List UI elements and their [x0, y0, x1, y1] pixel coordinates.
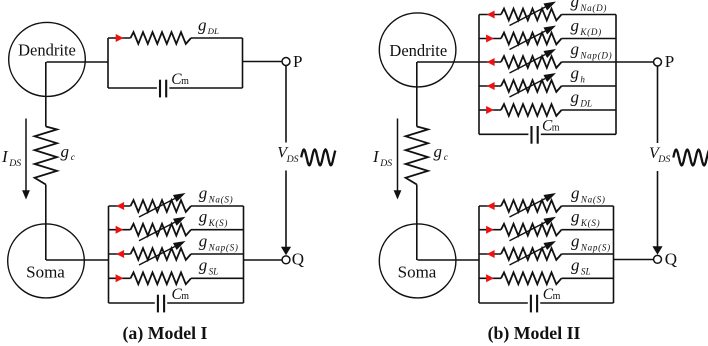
label g_K(S) (Model II soma): [571, 207, 600, 228]
wire: soma to channel box (Model II): [418, 259, 480, 261]
wire row lead-in g_Na(S) (Model I): [109, 205, 131, 207]
wire: bottom edge left of C_m (Model I dendrite): [108, 87, 157, 89]
node Q (Model I): [282, 250, 304, 269]
bus right (Model II dendrite box): [615, 15, 617, 135]
label g_K(D) (Model II): [571, 16, 602, 37]
wire: bottom edge left of C_m (Model I soma): [109, 302, 155, 304]
wire row lead-in g_SL (Model I): [109, 277, 131, 279]
svg-text:Nap(S): Nap(S): [208, 242, 239, 252]
current direction arrow on g_DL (red, Model II): [486, 106, 494, 114]
variable arrow on g_Na(D) (Model II): [510, 2, 557, 26]
label g_c (Model II): [434, 142, 449, 163]
bus left (Model II dendrite box): [478, 15, 480, 135]
wire: P down to V_DS (Model II): [657, 66, 659, 143]
wire: dendrite to RC box (Model I): [47, 61, 109, 63]
svg-text:K(S): K(S): [208, 218, 228, 228]
capacitor C_m (Model I dendrite): [160, 80, 166, 98]
svg-text:DS: DS: [8, 158, 21, 169]
resistor g_Na(S) (Model I): [131, 200, 192, 212]
resistor g_h (Model II): [501, 80, 562, 92]
resistor g_c (Model I): [35, 127, 57, 185]
svg-text:g: g: [199, 207, 208, 226]
svg-text:g: g: [571, 231, 580, 250]
label g_DL (Model I): [198, 16, 219, 37]
bus right (Model I soma box): [243, 206, 245, 303]
variable arrow on g_Nap(S) (Model I): [139, 241, 186, 265]
svg-text:Soma: Soma: [398, 263, 437, 282]
wire: bottom edge right of C_m (Model I soma): [167, 302, 243, 304]
svg-text:DL: DL: [207, 26, 219, 36]
svg-text:m: m: [552, 123, 560, 134]
current direction arrow on g_K(S) (red, Model I): [116, 226, 124, 234]
svg-text:DS: DS: [379, 158, 392, 169]
svg-text:DL: DL: [579, 98, 592, 108]
label g_Nap(D) (Model II): [571, 39, 613, 60]
svg-text:SL: SL: [209, 267, 219, 277]
svg-text:g: g: [571, 183, 580, 202]
svg-text:K(D): K(D): [579, 27, 602, 37]
wire: V_DS to node Q with arrow (Model I): [281, 171, 291, 256]
wire: bottom edge right of C_m (Model II soma): [540, 302, 613, 304]
label g_Na(S) (Model II soma): [571, 183, 606, 204]
wire row lead-out g_K(S) (Model II): [562, 229, 614, 231]
svg-text:m: m: [181, 291, 189, 302]
svg-text:Nap(D): Nap(D): [579, 50, 612, 60]
svg-text:Na(S): Na(S): [208, 194, 234, 204]
svg-text:g: g: [571, 16, 580, 35]
svg-text:I: I: [372, 147, 380, 166]
compartment circle: Dendrite (Model I): [9, 22, 86, 96]
label g_Na(S) (Model I): [199, 183, 234, 204]
resistor g_SL (Model II soma): [501, 272, 562, 284]
current direction arrow on g_SL (red, Model I): [116, 274, 124, 282]
node P (Model I): [282, 52, 302, 71]
wire: dendrite to channel box (Model II): [417, 61, 479, 63]
wire row lead-out g_Nap(S) (Model II): [562, 253, 614, 255]
resistor g_Na(S) (Model II soma): [501, 200, 562, 212]
wire row lead-in g_h (Model II): [479, 85, 501, 87]
svg-text:Dendrite: Dendrite: [18, 41, 76, 60]
compartment circle: Soma (Model I): [8, 224, 85, 298]
wire row lead-in g_Na(D) (Model II): [479, 14, 501, 16]
svg-text:SL: SL: [581, 267, 591, 277]
label C_m (Model II soma): [543, 286, 561, 303]
wire: top edge lead-out (Model I): [191, 37, 243, 39]
current direction arrow on g_Nap(S) (red, Model II): [487, 250, 495, 258]
caption (b) Model II: [488, 323, 581, 344]
svg-text:g: g: [571, 0, 580, 11]
svg-text:g: g: [199, 183, 208, 202]
voltage source waveform (Model II): [673, 150, 708, 166]
wire row lead-out g_Na(S) (Model I): [191, 205, 244, 207]
svg-text:Nap(S): Nap(S): [580, 242, 611, 252]
label g_h (Model II): [571, 63, 586, 84]
wire: dendrite down to g_c (Model I): [45, 62, 47, 127]
wire: box to node P (Model I): [243, 61, 282, 63]
wire: bottom edge right of C_m (Model I dendrite): [169, 87, 242, 89]
wire row lead-out g_K(S) (Model I): [191, 229, 244, 231]
svg-text:g: g: [198, 16, 207, 35]
svg-text:(a) Model I: (a) Model I: [123, 323, 208, 344]
node P (Model II): [654, 52, 675, 71]
wire: V_DS to node Q with arrow (Model II): [652, 171, 662, 255]
wire: P down to V_DS (Model I): [285, 66, 287, 143]
wire: g_c to soma (Model II): [416, 185, 418, 261]
wire row lead-out g_SL (Model II): [562, 277, 614, 279]
resistor g_c (Model II): [406, 127, 428, 185]
svg-text:g: g: [199, 231, 208, 250]
current direction arrow on g_Na(S) (red, Model I): [116, 202, 124, 210]
label V_DS (Model I): [277, 145, 298, 165]
label g_K(S) (Model I): [199, 207, 228, 228]
wire row lead-out g_Na(S) (Model II): [562, 205, 614, 207]
wire row lead-out g_Nap(D) (Model II): [562, 61, 617, 63]
caption (a) Model I: [123, 323, 208, 344]
svg-text:g: g: [571, 207, 580, 226]
bus left (Model I soma box): [108, 206, 110, 303]
variable arrow on g_K(S) (Model I): [139, 217, 186, 241]
current direction arrow on g_h (red, Model II): [487, 82, 495, 90]
label I_DS (Model II): [372, 147, 392, 169]
wire: top edge lead-in (Model I): [108, 37, 131, 39]
current direction arrow on g_Nap(D) (red, Model II): [487, 58, 495, 66]
variable arrow on g_K(S) (Model II): [510, 217, 557, 241]
variable arrow on g_Na(S) (Model I): [139, 193, 186, 217]
variable arrow on g_Nap(S) (Model II): [510, 241, 557, 265]
svg-text:Na(D): Na(D): [579, 3, 607, 13]
label g_Na(D) (Model II): [571, 0, 608, 13]
label I_DS (Model I): [1, 147, 21, 169]
svg-text:Q: Q: [292, 250, 304, 269]
resistor g_K(S) (Model I): [131, 224, 192, 236]
compartment circle: Soma (Model II): [379, 224, 456, 298]
svg-text:m: m: [181, 76, 189, 87]
wire: bottom edge left of C_m (Model II soma): [479, 302, 528, 304]
voltage source waveform (Model I): [301, 150, 335, 166]
label g_SL (Model II soma): [571, 256, 591, 277]
wire row lead-in g_Na(S) (Model II): [479, 205, 501, 207]
variable arrow on g_Na(S) (Model II): [510, 193, 557, 217]
svg-text:K(S): K(S): [580, 218, 600, 228]
wire row lead-in g_SL (Model II): [479, 277, 501, 279]
svg-text:g: g: [61, 142, 70, 161]
resistor g_Nap(S) (Model II soma): [501, 248, 562, 260]
wire: g_c to soma (Model I): [45, 185, 47, 261]
wire: bottom edge right of C_m (Model II dendrite): [541, 133, 616, 135]
svg-text:DS: DS: [286, 154, 299, 165]
svg-text:g: g: [434, 142, 443, 161]
wire: bottom edge left of C_m (Model II dendrite): [479, 133, 528, 135]
label g_DL (Model II): [571, 87, 593, 108]
wire: box to node P (Model II): [616, 61, 653, 63]
svg-text:(b) Model II: (b) Model II: [488, 323, 581, 344]
wire row lead-in g_Nap(D) (Model II): [479, 61, 501, 63]
wire row lead-in g_K(D) (Model II): [479, 38, 501, 40]
current direction arrow on g_DL (red): [116, 34, 124, 42]
capacitor C_m (Model I soma): [158, 295, 164, 313]
svg-text:h: h: [580, 74, 585, 84]
variable arrow on g_Nap(D) (Model II): [510, 49, 557, 73]
svg-text:c: c: [444, 153, 449, 163]
capacitor C_m (Model II dendrite): [532, 126, 538, 144]
svg-text:I: I: [1, 147, 9, 166]
wire: dendrite down to g_c (Model II): [416, 62, 418, 127]
current arrow I_DS (Model II): [394, 119, 402, 200]
resistor g_Nap(D) (Model II): [501, 56, 562, 68]
svg-text:g: g: [571, 256, 580, 275]
svg-text:g: g: [571, 63, 580, 82]
box left edge (Model I dendrite RC): [107, 38, 109, 88]
label C_m (Model II dendrite): [542, 118, 560, 135]
wire row lead-in g_Nap(S) (Model II): [479, 253, 501, 255]
resistor g_SL (Model I): [131, 272, 192, 284]
wire row lead-out g_SL (Model I): [191, 277, 244, 279]
variable arrow on g_K(D) (Model II): [510, 26, 557, 50]
svg-text:DS: DS: [657, 154, 670, 165]
wire row lead-out g_DL (Model II): [562, 109, 617, 111]
wire row lead-in g_K(S) (Model II): [479, 229, 501, 231]
svg-text:c: c: [71, 153, 76, 163]
wire row lead-out g_Na(D) (Model II): [562, 14, 617, 16]
bus right (Model II soma box): [613, 206, 615, 303]
wire row lead-out g_K(D) (Model II): [562, 38, 617, 40]
label g_SL (Model I): [199, 256, 219, 277]
current arrow I_DS (Model I): [22, 119, 30, 200]
node Q (Model II): [654, 250, 678, 269]
wire row lead-out g_h (Model II): [562, 85, 617, 87]
current direction arrow on g_K(S) (red, Model II): [486, 226, 494, 234]
wire row lead-in g_K(S) (Model I): [109, 229, 131, 231]
resistor g_Na(D) (Model II): [501, 9, 562, 21]
compartment circle: Dendrite (Model II): [379, 13, 456, 87]
variable arrow on g_h (Model II): [510, 73, 557, 97]
svg-text:Q: Q: [665, 250, 677, 269]
svg-text:g: g: [571, 39, 580, 58]
svg-text:Dendrite: Dendrite: [389, 41, 447, 60]
wire row lead-out g_Nap(S) (Model I): [191, 253, 244, 255]
svg-text:P: P: [293, 52, 302, 71]
wire row lead-in g_Nap(S) (Model I): [109, 253, 131, 255]
wire: channel box to node Q (Model II): [614, 259, 654, 261]
label g_Nap(S) (Model I): [199, 231, 239, 252]
current direction arrow on g_SL (red, Model II): [486, 274, 494, 282]
wire: channel box to node Q (Model I): [244, 259, 282, 261]
svg-text:Soma: Soma: [26, 263, 65, 282]
box right edge (Model I dendrite RC): [242, 38, 244, 88]
current direction arrow on g_Na(D) (red, Model II): [487, 11, 495, 19]
resistor g_Nap(S) (Model I): [131, 248, 192, 260]
resistor g_DL (Model I): [131, 32, 192, 44]
svg-text:g: g: [571, 87, 580, 106]
svg-text:Na(S): Na(S): [580, 194, 606, 204]
label V_DS (Model II): [649, 145, 670, 165]
current direction arrow on g_K(D) (red, Model II): [486, 35, 494, 43]
svg-text:m: m: [553, 291, 561, 302]
label C_m (Model I dendrite): [171, 71, 189, 88]
wire: soma to channel box (Model I): [46, 259, 109, 261]
bus left (Model II soma box): [478, 206, 480, 303]
svg-text:P: P: [665, 52, 674, 71]
label g_Nap(S) (Model II soma): [571, 231, 611, 252]
resistor g_DL (Model II): [501, 104, 562, 116]
svg-text:g: g: [199, 256, 208, 275]
label C_m (Model I soma): [172, 286, 190, 303]
current direction arrow on g_Na(S) (red, Model II): [487, 202, 495, 210]
resistor g_K(D) (Model II): [501, 33, 562, 45]
current direction arrow on g_Nap(S) (red, Model I): [116, 250, 124, 258]
wire row lead-in g_DL (Model II): [479, 109, 501, 111]
label g_c (Model I): [61, 142, 76, 163]
resistor g_K(S) (Model II soma): [501, 224, 562, 236]
capacitor C_m (Model II soma): [531, 295, 537, 313]
